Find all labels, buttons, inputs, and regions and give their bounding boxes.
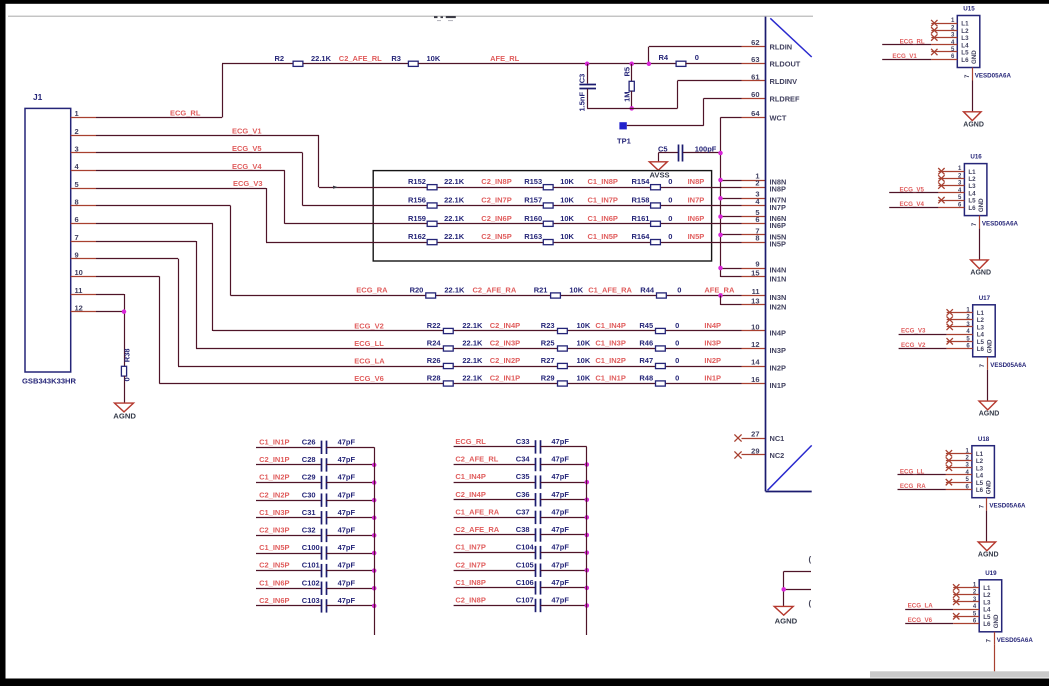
svg-text:R44: R44: [640, 286, 655, 295]
svg-text:ECG_RA: ECG_RA: [356, 286, 388, 295]
svg-text:R25: R25: [541, 339, 555, 348]
svg-text:10K: 10K: [560, 214, 574, 223]
svg-text:22.1K: 22.1K: [311, 54, 332, 63]
svg-text:R26: R26: [427, 356, 441, 365]
svg-text:C2_AFE_RA: C2_AFE_RA: [473, 286, 517, 295]
svg-text:L4: L4: [968, 190, 976, 197]
svg-text:IN3N: IN3N: [770, 293, 787, 302]
svg-text:L3: L3: [983, 599, 991, 606]
svg-text:VESD05A6A: VESD05A6A: [982, 221, 1019, 228]
svg-text:C2_IN6P: C2_IN6P: [481, 214, 511, 223]
svg-text:64: 64: [751, 109, 760, 118]
svg-text:ECG_LA: ECG_LA: [908, 603, 934, 610]
svg-text:RLDINV: RLDINV: [770, 77, 798, 86]
svg-text:IN7P: IN7P: [770, 203, 787, 212]
svg-text:10: 10: [751, 322, 759, 331]
svg-text:2: 2: [75, 127, 79, 136]
svg-text:C100: C100: [302, 543, 320, 552]
svg-text:C104: C104: [516, 543, 535, 552]
svg-text:L4: L4: [976, 473, 984, 480]
svg-text:0: 0: [675, 374, 679, 383]
svg-text:L5: L5: [968, 198, 976, 205]
svg-text:5: 5: [75, 180, 79, 189]
svg-text:C2_AFE_RA: C2_AFE_RA: [455, 525, 499, 534]
svg-text:C36: C36: [516, 490, 530, 499]
svg-text:C3: C3: [578, 74, 587, 84]
svg-text:R22: R22: [427, 321, 441, 330]
svg-text:R157: R157: [524, 196, 542, 205]
svg-text:22.1K: 22.1K: [444, 232, 465, 241]
svg-text:10K: 10K: [560, 232, 574, 241]
svg-text:L2: L2: [961, 28, 969, 35]
svg-text:47pF: 47pF: [551, 490, 569, 499]
svg-text:0: 0: [123, 377, 132, 381]
svg-text:L1: L1: [976, 451, 984, 458]
svg-text:10K: 10K: [560, 177, 574, 186]
svg-text:IN5P: IN5P: [770, 240, 787, 249]
svg-text:L2: L2: [983, 592, 991, 599]
svg-text:NC1: NC1: [770, 434, 785, 443]
svg-text:IN4P: IN4P: [770, 328, 787, 337]
svg-text:27: 27: [751, 429, 759, 438]
svg-text:R159: R159: [408, 214, 426, 223]
svg-text:C1_IN3P: C1_IN3P: [595, 339, 625, 348]
svg-text:IN2P: IN2P: [704, 356, 721, 365]
svg-text:10K: 10K: [577, 339, 591, 348]
svg-text:22.1K: 22.1K: [444, 214, 465, 223]
svg-text:10K: 10K: [560, 196, 574, 205]
svg-text:C1_IN1P: C1_IN1P: [595, 374, 625, 383]
svg-text:U15: U15: [963, 6, 975, 13]
svg-text:L1: L1: [983, 585, 991, 592]
svg-text:GND: GND: [993, 614, 1000, 628]
svg-text:IN1P: IN1P: [770, 381, 787, 390]
svg-text:ECG_V6: ECG_V6: [908, 617, 933, 624]
svg-text:47pF: 47pF: [551, 437, 569, 446]
svg-text:13: 13: [751, 296, 759, 305]
svg-text:AVSS: AVSS: [650, 170, 670, 179]
svg-text:C103: C103: [302, 596, 320, 605]
svg-text:7: 7: [75, 233, 79, 242]
svg-text:C28: C28: [302, 455, 316, 464]
svg-text:AFE_RA: AFE_RA: [704, 286, 735, 295]
svg-text:63: 63: [751, 55, 759, 64]
svg-text:R46: R46: [639, 339, 653, 348]
svg-text:ECG_V3: ECG_V3: [233, 179, 263, 188]
svg-text:R3: R3: [391, 54, 401, 63]
svg-text:C37: C37: [516, 507, 530, 516]
svg-text:L1: L1: [968, 169, 976, 176]
svg-text:IN5P: IN5P: [688, 232, 705, 241]
svg-text:2: 2: [755, 179, 759, 188]
svg-text:R27: R27: [541, 356, 555, 365]
svg-text:(: (: [809, 555, 812, 564]
svg-text:IN3P: IN3P: [770, 346, 787, 355]
svg-text:C2_IN7P: C2_IN7P: [481, 196, 511, 205]
svg-text:C2_IN7P: C2_IN7P: [455, 560, 485, 569]
svg-text:L3: L3: [976, 465, 984, 472]
svg-text:C106: C106: [516, 578, 534, 587]
svg-text:ECG_V2: ECG_V2: [901, 342, 926, 349]
svg-text:C1_IN7P: C1_IN7P: [588, 196, 618, 205]
svg-text:ECG_RL: ECG_RL: [900, 38, 925, 45]
svg-text:IN1P: IN1P: [704, 374, 721, 383]
svg-text:ECG_V1: ECG_V1: [892, 53, 917, 60]
svg-text:IN8P: IN8P: [770, 185, 787, 194]
svg-text:IN6P: IN6P: [688, 214, 705, 223]
svg-text:C1_IN7P: C1_IN7P: [455, 543, 485, 552]
svg-text:TP1: TP1: [617, 137, 631, 146]
svg-text:L1: L1: [961, 21, 969, 28]
svg-text:10K: 10K: [427, 54, 441, 63]
svg-text:C26: C26: [302, 437, 316, 446]
svg-text:47pF: 47pF: [551, 560, 569, 569]
svg-text:L2: L2: [976, 458, 984, 465]
svg-text:0: 0: [668, 214, 672, 223]
svg-text:GND: GND: [978, 198, 985, 212]
svg-text:WCT: WCT: [770, 113, 787, 122]
svg-text:C1_IN5P: C1_IN5P: [259, 543, 289, 552]
svg-text:C2_IN6P: C2_IN6P: [259, 596, 289, 605]
svg-text:ECG_V2: ECG_V2: [354, 321, 384, 330]
svg-text:47pF: 47pF: [338, 578, 356, 587]
svg-text:12: 12: [75, 303, 83, 312]
svg-text:ECG_LL: ECG_LL: [900, 469, 925, 476]
svg-text:0: 0: [675, 321, 679, 330]
svg-text:R23: R23: [541, 321, 555, 330]
svg-text:ECG_LA: ECG_LA: [354, 356, 385, 365]
svg-text:L6: L6: [961, 57, 969, 64]
svg-text:0: 0: [668, 196, 672, 205]
svg-text:47pF: 47pF: [551, 507, 569, 516]
svg-text:C2_IN2P: C2_IN2P: [490, 356, 520, 365]
svg-text:C2_IN8P: C2_IN8P: [481, 177, 511, 186]
svg-text:0: 0: [668, 177, 672, 186]
svg-text:ECG_V4: ECG_V4: [900, 201, 925, 208]
svg-text:IN8P: IN8P: [688, 177, 705, 186]
svg-text:L2: L2: [968, 176, 976, 183]
svg-text:ECG_RL: ECG_RL: [455, 437, 486, 446]
svg-text:U17: U17: [979, 295, 991, 302]
svg-text:C2_IN5P: C2_IN5P: [259, 561, 289, 570]
svg-text:R24: R24: [427, 339, 442, 348]
svg-text:GND: GND: [986, 339, 993, 353]
svg-text:R164: R164: [632, 232, 651, 241]
svg-text:47pF: 47pF: [338, 437, 356, 446]
svg-text:AGND: AGND: [970, 269, 991, 276]
svg-text:L4: L4: [977, 332, 985, 339]
svg-text:L6: L6: [968, 205, 976, 212]
svg-text:10K: 10K: [577, 374, 591, 383]
svg-text:R4: R4: [659, 53, 669, 62]
svg-text:VESD05A6A: VESD05A6A: [990, 362, 1027, 369]
svg-text:IN4N: IN4N: [770, 265, 787, 274]
svg-text:L5: L5: [976, 480, 984, 487]
svg-text:9: 9: [755, 259, 759, 268]
svg-text:22.1K: 22.1K: [462, 339, 483, 348]
svg-text:VESD05A6A: VESD05A6A: [989, 503, 1026, 510]
svg-text:47pF: 47pF: [338, 543, 356, 552]
svg-text:(: (: [809, 599, 812, 608]
svg-text:C2_IN8P: C2_IN8P: [455, 596, 485, 605]
svg-text:IN2P: IN2P: [770, 363, 787, 372]
svg-text:1: 1: [75, 109, 79, 118]
svg-text:ECG_LL: ECG_LL: [354, 339, 384, 348]
svg-text:11: 11: [752, 287, 760, 296]
svg-text:8: 8: [755, 234, 759, 243]
svg-text:10K: 10K: [577, 321, 591, 330]
svg-text:C2_IN5P: C2_IN5P: [481, 232, 511, 241]
svg-text:L4: L4: [983, 607, 991, 614]
svg-text:L5: L5: [977, 339, 985, 346]
svg-text:R5: R5: [622, 67, 631, 77]
svg-text:61: 61: [751, 72, 759, 81]
svg-text:ECG_V6: ECG_V6: [354, 374, 384, 383]
svg-text:47pF: 47pF: [551, 578, 569, 587]
svg-text:C2_AFE_RL: C2_AFE_RL: [455, 455, 498, 464]
svg-text:22.1K: 22.1K: [462, 356, 483, 365]
svg-text:R152: R152: [408, 177, 426, 186]
svg-text:1.5nF: 1.5nF: [577, 91, 586, 111]
svg-text:22.1K: 22.1K: [444, 286, 465, 295]
svg-text:R29: R29: [541, 374, 555, 383]
svg-text:AGND: AGND: [979, 411, 1000, 418]
svg-text:R47: R47: [639, 356, 653, 365]
svg-text:0: 0: [668, 232, 672, 241]
svg-text:C1_IN2P: C1_IN2P: [595, 356, 625, 365]
svg-text:47pF: 47pF: [551, 455, 569, 464]
svg-text:10: 10: [75, 268, 83, 277]
svg-text:C2_IN4P: C2_IN4P: [455, 490, 485, 499]
svg-text:L2: L2: [977, 317, 985, 324]
svg-text:C2_IN1P: C2_IN1P: [490, 374, 520, 383]
svg-text:C105: C105: [516, 560, 534, 569]
svg-text:16: 16: [751, 375, 759, 384]
svg-text:10K: 10K: [569, 286, 583, 295]
svg-text:U16: U16: [970, 154, 982, 161]
svg-text:29: 29: [751, 446, 759, 455]
svg-text:C2_IN3P: C2_IN3P: [490, 339, 520, 348]
svg-text:C1_IN5P: C1_IN5P: [588, 232, 618, 241]
svg-text:GSB343K33HR: GSB343K33HR: [22, 377, 77, 386]
svg-text:ECG_V3: ECG_V3: [901, 328, 926, 335]
svg-text:ECG_V5: ECG_V5: [232, 144, 262, 153]
svg-text:R45: R45: [639, 321, 653, 330]
svg-text:IN2N: IN2N: [770, 302, 787, 311]
svg-text:C38: C38: [516, 525, 530, 534]
svg-text:C1_IN6P: C1_IN6P: [588, 214, 618, 223]
svg-text:22.1K: 22.1K: [444, 177, 465, 186]
svg-text:C107: C107: [516, 596, 534, 605]
svg-text:AFE_RL: AFE_RL: [490, 54, 520, 63]
svg-text:VESD05A6A: VESD05A6A: [975, 73, 1012, 80]
svg-text:1M: 1M: [622, 91, 631, 101]
svg-text:C1_AFE_RA: C1_AFE_RA: [455, 507, 499, 516]
svg-text:47pF: 47pF: [338, 490, 356, 499]
svg-text:47pF: 47pF: [338, 508, 356, 517]
svg-text:C35: C35: [516, 472, 530, 481]
svg-text:C29: C29: [302, 473, 316, 482]
svg-text:C5: C5: [658, 144, 668, 153]
svg-text:62: 62: [751, 38, 759, 47]
svg-text:C31: C31: [302, 508, 316, 517]
svg-text:C34: C34: [516, 455, 531, 464]
svg-text:ECG_V5: ECG_V5: [900, 186, 925, 193]
svg-text:ECG_RL: ECG_RL: [170, 109, 201, 118]
svg-text:R28: R28: [427, 374, 441, 383]
svg-text:R160: R160: [524, 214, 542, 223]
svg-text:C1_IN8P: C1_IN8P: [455, 578, 485, 587]
svg-text:AGND: AGND: [978, 552, 999, 559]
svg-text:C2_IN3P: C2_IN3P: [259, 526, 289, 535]
svg-text:L3: L3: [968, 183, 976, 190]
svg-text:L3: L3: [961, 35, 969, 42]
svg-text:R21: R21: [534, 286, 548, 295]
svg-text:C2_AFE_RL: C2_AFE_RL: [339, 54, 382, 63]
svg-text:GND: GND: [971, 50, 978, 64]
svg-text:9: 9: [75, 250, 79, 259]
svg-text:L6: L6: [977, 346, 985, 353]
svg-text:3: 3: [75, 145, 79, 154]
svg-text:C2_IN1P: C2_IN1P: [259, 455, 289, 464]
svg-text:R154: R154: [632, 177, 651, 186]
svg-text:47pF: 47pF: [338, 526, 356, 535]
svg-text:C33: C33: [516, 437, 530, 446]
svg-text:8: 8: [75, 198, 79, 207]
svg-text:AGND: AGND: [963, 121, 984, 128]
svg-text:ECG_RA: ECG_RA: [900, 483, 926, 490]
svg-text:C1_IN4P: C1_IN4P: [595, 321, 625, 330]
svg-text:R38: R38: [123, 348, 132, 362]
svg-text:R163: R163: [524, 232, 542, 241]
svg-text:47pF: 47pF: [338, 596, 356, 605]
svg-text:R20: R20: [410, 286, 424, 295]
svg-text:L6: L6: [983, 621, 991, 628]
svg-text:0: 0: [675, 356, 679, 365]
svg-text:C2_IN4P: C2_IN4P: [490, 321, 520, 330]
svg-text:L4: L4: [961, 42, 969, 49]
svg-text:C2_IN2P: C2_IN2P: [259, 490, 289, 499]
svg-text:47pF: 47pF: [551, 596, 569, 605]
svg-text:L5: L5: [983, 614, 991, 621]
svg-text:RLDIN: RLDIN: [770, 43, 793, 52]
svg-text:0: 0: [695, 53, 699, 62]
svg-text:GND: GND: [986, 480, 993, 494]
svg-text:22.1K: 22.1K: [444, 196, 465, 205]
svg-text:C30: C30: [302, 490, 316, 499]
svg-text:R156: R156: [408, 196, 426, 205]
svg-text:L6: L6: [976, 487, 984, 494]
svg-text:47pF: 47pF: [551, 525, 569, 534]
svg-text:NC2: NC2: [770, 451, 785, 460]
svg-text:6: 6: [755, 215, 759, 224]
svg-text:RLDREF: RLDREF: [770, 94, 800, 103]
svg-text:R158: R158: [632, 196, 650, 205]
svg-text:ECG_V4: ECG_V4: [232, 162, 262, 171]
svg-text:ECG_V1: ECG_V1: [232, 126, 262, 135]
svg-text:0: 0: [677, 286, 681, 295]
svg-text:L3: L3: [977, 324, 985, 331]
svg-text:C1_AFE_RA: C1_AFE_RA: [588, 286, 632, 295]
svg-text:R2: R2: [275, 54, 285, 63]
svg-text:60: 60: [751, 90, 759, 99]
svg-text:14: 14: [751, 357, 760, 366]
svg-text:0: 0: [675, 339, 679, 348]
svg-text:11: 11: [75, 286, 83, 295]
svg-text:47pF: 47pF: [338, 561, 356, 570]
svg-text:C1_IN1P: C1_IN1P: [259, 437, 289, 446]
svg-text:RLDOUT: RLDOUT: [770, 60, 801, 69]
svg-text:C1_IN8P: C1_IN8P: [588, 177, 618, 186]
svg-text:12: 12: [751, 340, 759, 349]
svg-text:L5: L5: [961, 50, 969, 57]
svg-text:U19: U19: [985, 570, 997, 577]
svg-text:L1: L1: [977, 310, 985, 317]
svg-text:AGND: AGND: [775, 616, 798, 625]
svg-text:VESD05A6A: VESD05A6A: [997, 637, 1034, 644]
svg-text:10K: 10K: [577, 356, 591, 365]
svg-text:C1_IN3P: C1_IN3P: [259, 508, 289, 517]
svg-text:15: 15: [751, 268, 759, 277]
svg-text:22.1K: 22.1K: [462, 321, 483, 330]
svg-text:22.1K: 22.1K: [462, 374, 483, 383]
svg-text:R162: R162: [408, 232, 426, 241]
svg-text:C102: C102: [302, 578, 320, 587]
svg-text:AGND: AGND: [113, 412, 136, 421]
svg-text:C1_IN6P: C1_IN6P: [259, 578, 289, 587]
svg-text:47pF: 47pF: [551, 543, 569, 552]
svg-text:47pF: 47pF: [338, 455, 356, 464]
svg-text:R153: R153: [524, 177, 542, 186]
svg-text:IN3P: IN3P: [704, 339, 721, 348]
svg-text:C1_IN2P: C1_IN2P: [259, 473, 289, 482]
svg-text:47pF: 47pF: [338, 473, 356, 482]
svg-text:IN7P: IN7P: [688, 196, 705, 205]
svg-text:C32: C32: [302, 526, 316, 535]
svg-text:47pF: 47pF: [551, 472, 569, 481]
svg-text:R48: R48: [639, 374, 653, 383]
svg-text:100pF: 100pF: [695, 144, 717, 153]
svg-text:J1: J1: [33, 92, 43, 102]
svg-text:IN4P: IN4P: [704, 321, 721, 330]
svg-text:C101: C101: [302, 561, 320, 570]
svg-text:6: 6: [75, 215, 79, 224]
svg-text:R161: R161: [632, 214, 650, 223]
svg-text:IN1N: IN1N: [770, 274, 787, 283]
svg-text:C1_IN4P: C1_IN4P: [455, 472, 485, 481]
svg-text:IN6P: IN6P: [770, 221, 787, 230]
svg-text:U18: U18: [978, 436, 990, 443]
